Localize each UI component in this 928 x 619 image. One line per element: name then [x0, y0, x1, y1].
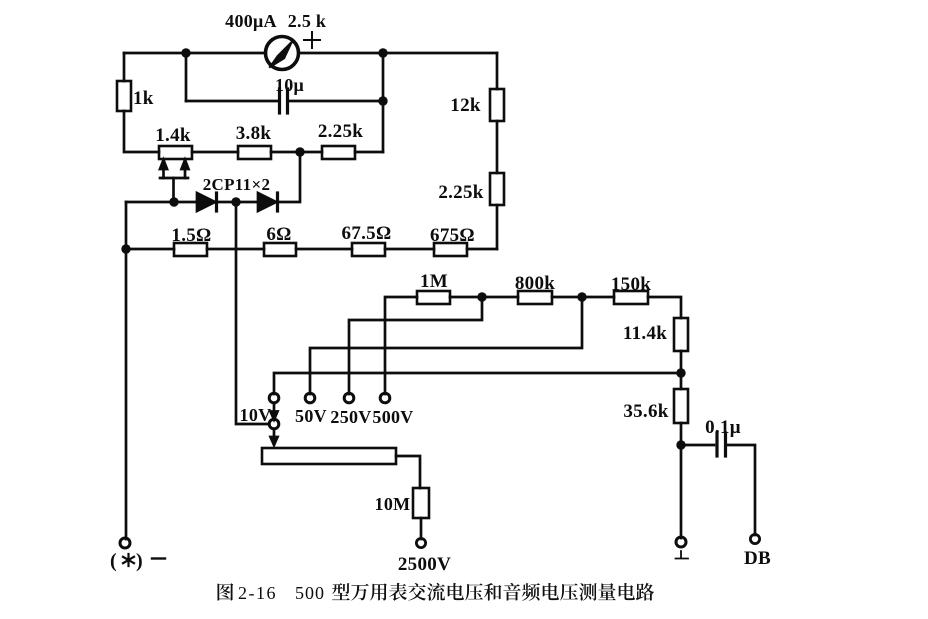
- wire 2.25k bottom to shunt row: [496, 205, 499, 249]
- svg-text:0.1μ: 0.1μ: [705, 417, 741, 438]
- svg-text:50V: 50V: [295, 406, 327, 426]
- resistor 2.25k right: [490, 173, 504, 205]
- wire D2 to x300 and up to 1.4k row: [278, 152, 300, 202]
- node dot 1.4k row: [295, 147, 304, 156]
- wire 12k to 2.25k: [496, 121, 499, 173]
- svg-text:1.4k: 1.4k: [155, 125, 191, 146]
- wire selector feed from diode mid down to wiper: [236, 202, 269, 424]
- label 12k: [450, 95, 481, 116]
- svg-text:2.25k: 2.25k: [318, 121, 363, 142]
- label 10u: [275, 75, 304, 95]
- wire right vertical x497 top: [496, 53, 499, 89]
- resistor 3.8k: [238, 146, 271, 159]
- label 1M: [420, 271, 448, 292]
- terminal circle 50V: [305, 393, 315, 403]
- resistor 6ohm: [264, 243, 296, 256]
- label (*) minus: [110, 550, 143, 572]
- wire 11.4k to 35.6k: [680, 351, 683, 389]
- wire 1k bottom to 1.4k row: [124, 111, 159, 152]
- wire vertical x186 top bus to cap row: [185, 53, 188, 101]
- label 400uA: [225, 11, 277, 31]
- wiper arrow second contact to potentiometer: [271, 429, 278, 445]
- label 1.5ohm: [171, 225, 211, 246]
- label 2.25k left: [318, 121, 363, 142]
- resistor 1.4k: [159, 146, 192, 159]
- meter M 400uA: [266, 37, 299, 70]
- wire shunt row seg1: [126, 248, 174, 251]
- svg-text:500V: 500V: [372, 407, 413, 427]
- svg-text:10V: 10V: [240, 405, 272, 425]
- label 675ohm: [430, 225, 475, 246]
- svg-text:(: (: [110, 550, 117, 572]
- label 6ohm: [266, 224, 291, 245]
- label 67.5ohm: [342, 223, 392, 244]
- node dot diode row tap: [169, 197, 178, 206]
- svg-text:35.6k: 35.6k: [623, 401, 668, 422]
- label + polarity: [304, 32, 320, 48]
- svg-text:2.5 k: 2.5 k: [288, 11, 327, 31]
- wire cap row right: [290, 100, 383, 103]
- label 2CP11x2: [203, 175, 271, 194]
- resistor 12k: [490, 89, 504, 121]
- svg-text:67.5Ω: 67.5Ω: [342, 223, 392, 244]
- label 800k: [515, 273, 555, 294]
- label 2.5k: [288, 11, 327, 31]
- node dot top bus left: [181, 48, 190, 57]
- svg-text:500: 500: [295, 583, 325, 603]
- svg-text:400μA: 400μA: [225, 11, 277, 31]
- svg-text:10M: 10M: [375, 494, 411, 514]
- label 10V: [240, 405, 272, 425]
- wire tap 482 down and row2 to 250V: [349, 297, 482, 394]
- wire 150k to right corner down: [648, 297, 681, 318]
- label 35.6k: [623, 401, 668, 422]
- wire 3.8k to 2.25k: [271, 151, 322, 154]
- wire potentiometer to 10M: [396, 456, 420, 488]
- wire multiplier row left corner down to 500V: [385, 297, 417, 394]
- resistor 1.5ohm: [174, 243, 207, 256]
- label 0.1u: [705, 417, 741, 438]
- terminal circle 2500V: [416, 538, 425, 547]
- node dot after 800k: [577, 292, 586, 301]
- terminal circle 500V: [380, 393, 390, 403]
- ground symbol: [676, 551, 689, 559]
- label 2.25k right: [438, 182, 483, 203]
- label DB: [744, 548, 771, 569]
- wire 10M to 2500V terminal: [420, 518, 423, 539]
- resistor 1M: [417, 291, 450, 304]
- terminal circle 10V: [269, 393, 279, 403]
- wire D1 to D2: [217, 201, 258, 204]
- node dot cap row right: [378, 96, 387, 105]
- terminal circle common minus: [120, 538, 130, 548]
- potentiometer body: [262, 448, 396, 464]
- capacitor 10u: [280, 89, 288, 113]
- wire diode row left: [126, 201, 197, 204]
- node dot top bus right: [378, 48, 387, 57]
- wire 1.4k to 3.8k: [192, 151, 238, 154]
- wire left vertical from top bus to 1k: [123, 53, 126, 81]
- label 2500V: [398, 554, 451, 575]
- svg-text:3.8k: 3.8k: [236, 123, 272, 144]
- diode D1 2CP11: [197, 193, 217, 211]
- label 3.8k: [236, 123, 272, 144]
- wire 800k to 150k: [552, 296, 614, 299]
- node dot shunt row left: [121, 244, 130, 253]
- wire 2.25k to x383: [355, 151, 383, 154]
- terminal circle wiper contact: [269, 419, 279, 429]
- resistor 67.5ohm: [352, 243, 385, 256]
- wire shunt row seg3: [296, 248, 352, 251]
- svg-text:2CP11×2: 2CP11×2: [203, 175, 271, 194]
- svg-text:250V: 250V: [330, 407, 371, 427]
- svg-text:2-16: 2-16: [238, 583, 277, 603]
- label 10M: [375, 494, 411, 514]
- wire 0.1u to DB terminal: [728, 445, 755, 535]
- wire to 0.1u cap: [681, 444, 714, 447]
- resistor 35.6k: [674, 389, 688, 423]
- wire top bus: [124, 52, 497, 55]
- wire cap row left: [186, 100, 277, 103]
- wire tap to diode row: [172, 178, 175, 202]
- label 500V: [372, 407, 413, 427]
- label 1k: [133, 88, 154, 109]
- terminal circle 250V: [344, 393, 354, 403]
- terminal circle ground: [676, 537, 686, 547]
- wire left vertical x126 diode row down to bottom terminal: [125, 202, 128, 539]
- wire 1M to 800k: [450, 296, 518, 299]
- wiper arrow 10V to second contact: [271, 403, 278, 420]
- rheostat taps of 1.4k: [160, 160, 189, 178]
- label 50V: [295, 406, 327, 426]
- node dot row4 right: [676, 368, 685, 377]
- diode D2 2CP11: [258, 193, 278, 211]
- terminal circle DB: [750, 534, 759, 543]
- svg-text:2.25k: 2.25k: [438, 182, 483, 203]
- node dot after 1M: [477, 292, 486, 301]
- label 250V: [330, 407, 371, 427]
- svg-text:): ): [136, 550, 143, 572]
- svg-text:2500V: 2500V: [398, 554, 451, 575]
- svg-text:12k: 12k: [450, 95, 481, 116]
- wire shunt row seg2: [207, 248, 264, 251]
- svg-text:1k: 1k: [133, 88, 154, 109]
- resistor 150k: [614, 291, 648, 304]
- resistor 11.4k: [674, 318, 688, 351]
- wire shunt row seg4: [385, 248, 434, 251]
- svg-text:1M: 1M: [420, 271, 448, 292]
- wire shunt row to right vertical: [467, 248, 497, 251]
- caption figure 2-16: [217, 583, 654, 603]
- wire tap 582 down and row3 to 50V: [310, 297, 582, 394]
- resistor 675ohm: [434, 243, 467, 256]
- label 150k: [611, 274, 651, 295]
- capacitor 0.1u: [717, 433, 726, 456]
- resistor 1k: [117, 81, 131, 111]
- node dot 0.1u row: [676, 440, 685, 449]
- resistor 800k: [518, 291, 552, 304]
- wire vertical x383 top bus to 1.4k row: [382, 53, 385, 152]
- wire long row4 to 10V: [274, 373, 682, 394]
- node dot between diodes: [231, 197, 240, 206]
- resistor 10M: [413, 488, 429, 518]
- svg-text:11.4k: 11.4k: [623, 323, 667, 344]
- label 11.4k: [623, 323, 667, 344]
- wire 35.6k down to ground terminal: [680, 423, 683, 538]
- svg-text:DB: DB: [744, 548, 771, 569]
- label 1.4k: [155, 125, 191, 146]
- resistor 2.25k left: [322, 146, 355, 159]
